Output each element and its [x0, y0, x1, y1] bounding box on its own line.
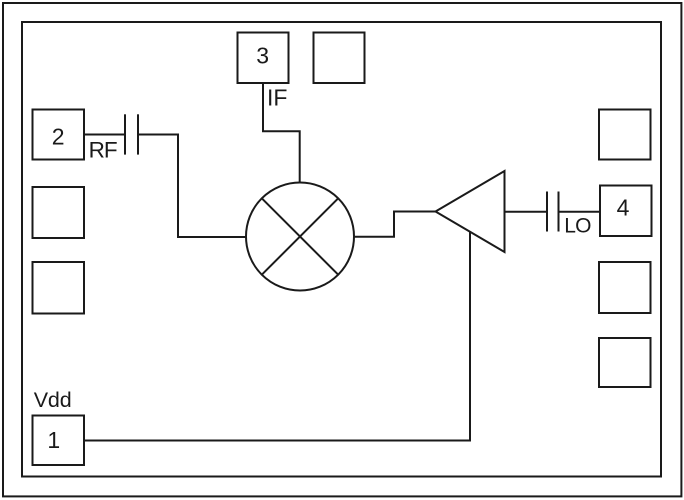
- unlabeled pad left upper: [33, 187, 85, 238]
- svg-text:1: 1: [47, 427, 60, 453]
- unlabeled pad right middle: [599, 262, 651, 313]
- amplifier A1 (LO buffer triangle): [436, 171, 505, 252]
- capacitor C2 (LO blocking) left plate: [546, 192, 548, 232]
- svg-text:Vdd: Vdd: [34, 388, 72, 412]
- svg-text:2: 2: [52, 124, 65, 150]
- wire capacitor C2 to pad4: [559, 211, 601, 213]
- pad 4 (LO pad): [600, 186, 652, 237]
- wire amplifier to capacitor C2: [505, 211, 548, 213]
- wire mixer to amplifier input: [354, 212, 436, 237]
- mixer U1 X diagonal 2: [262, 198, 338, 274]
- unlabeled pad left lower: [33, 262, 85, 314]
- capacitor C1 (RF blocking) left plate: [124, 114, 126, 154]
- wire pad2 to capacitor C1: [84, 134, 125, 136]
- svg-text:4: 4: [617, 195, 630, 221]
- capacitor C1 right plate: [137, 114, 139, 154]
- mixer U1 circle: [246, 183, 354, 291]
- wire pad3 to mixer (IF net): [263, 83, 300, 183]
- unlabeled pad top: [314, 33, 365, 84]
- pad 1 (Vdd pad): [33, 416, 85, 466]
- wire pad1 Vdd to amplifier: [84, 231, 470, 440]
- pad 3 (IF pad): [238, 33, 289, 84]
- svg-text:IF: IF: [267, 84, 287, 110]
- unlabeled pad right bottom: [599, 338, 651, 387]
- unlabeled pad right top: [599, 110, 651, 160]
- mixer U1 X diagonal 1: [262, 198, 338, 274]
- capacitor C2 right plate: [558, 192, 560, 232]
- pad 2 (RF pad): [33, 110, 85, 160]
- svg-text:RF: RF: [89, 138, 117, 163]
- wire capacitor C1 to mixer: [138, 135, 246, 238]
- svg-text:LO: LO: [564, 215, 591, 238]
- svg-text:3: 3: [256, 43, 269, 69]
